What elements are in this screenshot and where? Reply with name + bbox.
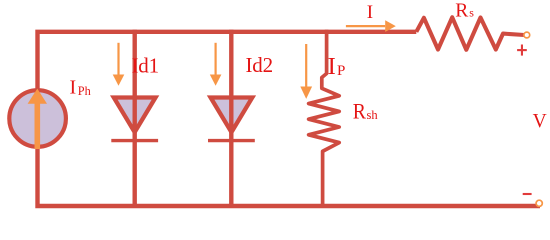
svg-text:I: I — [367, 2, 373, 23]
svg-text:R: R — [455, 1, 468, 22]
svg-text:I: I — [70, 77, 77, 99]
svg-text:Id2: Id2 — [246, 53, 273, 77]
svg-text:Id1: Id1 — [132, 53, 159, 77]
svg-text:s: s — [469, 6, 474, 20]
svg-text:V: V — [533, 111, 547, 132]
svg-text:Ph: Ph — [78, 84, 91, 98]
svg-text:R: R — [353, 99, 366, 124]
svg-text:P: P — [337, 63, 345, 79]
svg-text:I: I — [328, 53, 336, 80]
svg-text:sh: sh — [367, 108, 379, 122]
